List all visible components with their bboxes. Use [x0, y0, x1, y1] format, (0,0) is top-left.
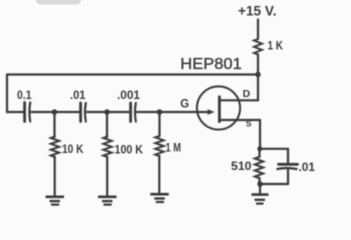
- capacitor C .01 bypass: [279, 163, 298, 166]
- svg-text:.01: .01: [299, 160, 316, 174]
- node: gate node: [157, 109, 162, 114]
- wire: source horizontal out of transistor: [220, 119, 260, 121]
- capacitor C 0.1: [23, 103, 26, 122]
- wire: source node to 510: [258, 149, 260, 157]
- resistor 1M: [155, 136, 163, 156]
- ground (1M): [150, 193, 169, 196]
- resistor 10K: [51, 137, 59, 158]
- node: drain / feedback node: [255, 72, 260, 77]
- resistor 1K: [254, 39, 262, 55]
- resistor 100K: [103, 137, 111, 158]
- wire: ladder row segment 3: [87, 111, 129, 113]
- wire: bypass cap upper lead: [287, 149, 289, 163]
- wire: gate wire to transistor: [137, 111, 208, 113]
- svg-text:1 M: 1 M: [166, 141, 182, 155]
- wire: 1K to drain node: [257, 55, 259, 101]
- capacitor C .01: [79, 103, 82, 122]
- transistor channel bar: [218, 97, 221, 122]
- wire: branch to bypass cap (top): [260, 148, 288, 150]
- wire: left vertical feedback drop: [6, 75, 8, 113]
- svg-text:100 K: 100 K: [115, 143, 144, 157]
- ground (10K): [46, 196, 65, 199]
- wire: 100K leg: [106, 112, 108, 137]
- svg-text:S: S: [246, 119, 252, 129]
- decorative grey tab (not labelled component): [36, 0, 81, 5]
- wire: bypass cap lower lead: [287, 170, 289, 184]
- wire: 1M to ground: [158, 156, 160, 194]
- wire: ladder row segment 2: [31, 111, 79, 113]
- svg-text:+15 V.: +15 V.: [238, 4, 277, 19]
- node: source RC bottom node: [257, 181, 262, 186]
- wire: drain horizontal into transistor: [220, 99, 258, 101]
- svg-text:1 K: 1 K: [268, 39, 284, 53]
- svg-text:.01: .01: [70, 88, 86, 102]
- wire: 10K leg: [53, 112, 55, 137]
- resistor 510: [255, 157, 263, 178]
- wire: 1M leg: [158, 112, 160, 136]
- ground (100K): [98, 196, 117, 199]
- node: ladder tap 1: [52, 109, 57, 114]
- svg-text:0.1: 0.1: [17, 88, 32, 102]
- node: source RC top node: [257, 146, 262, 151]
- svg-text:10 K: 10 K: [62, 142, 84, 156]
- wire: RC ladder row segment 1: [7, 111, 23, 113]
- node: ladder tap 2: [104, 109, 109, 114]
- wire: +15V supply drop: [257, 20, 259, 40]
- capacitor C .001: [129, 103, 132, 122]
- svg-text:.001: .001: [117, 88, 140, 102]
- svg-text:D: D: [243, 88, 251, 100]
- wire: 100K to ground: [106, 157, 108, 196]
- transistor Q1 HEP801 circle: [197, 86, 240, 129]
- svg-text:510: 510: [231, 159, 252, 173]
- ground (source): [252, 193, 269, 196]
- wire: bottom node to ground: [259, 184, 261, 194]
- svg-text:G: G: [180, 98, 189, 110]
- wire: feedback top line from left edge to drain node: [7, 73, 258, 75]
- wire: 510 to bottom node: [258, 178, 260, 184]
- svg-text:HEP801: HEP801: [180, 56, 242, 73]
- gate arrow: [208, 109, 215, 115]
- wire: branch back from cap (bottom): [260, 183, 288, 185]
- wire: source vertical down: [259, 120, 261, 149]
- wire: 10K to ground: [54, 157, 56, 196]
